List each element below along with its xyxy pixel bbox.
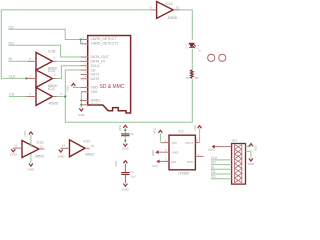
power VCC arrow left at JP1 (211, 145, 214, 149)
SD card socket U1 outline (88, 36, 131, 114)
node CD pins junction (80, 39, 82, 41)
pin stub IC1E input (13, 147, 22, 149)
pin stub GND (159, 151, 170, 153)
svg-text:11: 11 (14, 143, 17, 147)
wire DI net (9, 60, 28, 62)
pin stub VIN (161, 142, 169, 144)
wire JP1 to VCC right (246, 146, 251, 148)
wire JP1 CS (211, 173, 232, 175)
wire VCC to C2 (124, 164, 126, 173)
wire DO net (9, 45, 81, 57)
svg-text:C1: C1 (130, 132, 134, 136)
wire JP1 CD (211, 178, 232, 180)
connector JP1 box (232, 144, 246, 185)
pin stub CARD_DETECT1 (81, 43, 89, 45)
svg-text:CS: CS (9, 92, 15, 96)
capacitor C1 (121, 134, 129, 136)
wire IC1D output to LED chain (180, 10, 192, 40)
svg-text:CARD_DETECT: CARD_DETECT (91, 37, 118, 41)
wire C2 to GND (124, 175, 126, 184)
op-amp buffer IC1C (36, 87, 53, 105)
pin stub SCLK (81, 65, 89, 67)
wire IC1E to GND (30, 154, 32, 163)
svg-text:.1uF: .1uF (130, 174, 136, 178)
pin stub IC1C output (53, 96, 57, 98)
wire CD branch to pin 2 (80, 40, 82, 44)
wire JP1 CLK (211, 159, 232, 161)
pin stub IC1C input (27, 96, 37, 98)
pin stub IC1E output (39, 148, 45, 150)
pin stub VOUT (195, 142, 199, 144)
svg-text:CLK: CLK (211, 156, 218, 160)
svg-text:+3V3: +3V3 (23, 130, 27, 137)
wire CS net (9, 96, 27, 98)
svg-text:LP2985: LP2985 (178, 171, 189, 175)
svg-text:IC2: IC2 (179, 130, 184, 134)
svg-text:GND: GND (10, 153, 18, 157)
power +3V3 arrow above VOUT (198, 126, 202, 129)
svg-text:VCC: VCC (254, 145, 258, 151)
wire resistor down and bottom run (65, 79, 192, 122)
svg-text:GND: GND (172, 151, 180, 155)
ground symbol under card (79, 108, 83, 111)
op-amp buffer IC1A (36, 70, 53, 87)
svg-text:GND: GND (28, 167, 36, 171)
svg-text:12: 12 (40, 145, 44, 149)
pad hole H1 (208, 54, 215, 61)
ground arrow at IC2 GND (155, 150, 158, 154)
op-amp buffer IC1F (70, 140, 86, 157)
pad hole H2 (219, 54, 226, 61)
svg-text:GND: GND (91, 103, 99, 107)
pin stub IC1B input (28, 60, 37, 62)
svg-text:330: 330 (195, 77, 200, 80)
ground symbol below C1 (123, 144, 127, 147)
svg-text:IC1B: IC1B (48, 49, 56, 53)
svg-text:CARD_DETECT1: CARD_DETECT1 (91, 42, 119, 46)
wire JP1 DI (211, 168, 232, 170)
svg-text:+3V3: +3V3 (193, 125, 197, 132)
svg-text:SD & MMC: SD & MMC (100, 84, 125, 90)
pin stub CARD_DETECT (81, 39, 89, 41)
op-amp buffer IC1E (22, 141, 39, 158)
capacitor C2 (121, 173, 129, 175)
svg-text:C2: C2 (130, 170, 134, 174)
wire VCC to JP1 pin1 (214, 146, 231, 148)
wire VSS to GND (81, 92, 83, 108)
svg-text:4050D: 4050D (35, 155, 45, 159)
svg-text:CD: CD (211, 175, 216, 179)
node GND2 junction (80, 104, 82, 106)
wire JP1 to GND right (246, 151, 251, 158)
svg-text:14: 14 (62, 144, 66, 148)
LED LED1 (189, 43, 196, 48)
wire CD net (9, 29, 81, 39)
wire VCC to C1 (124, 128, 126, 133)
svg-text:DI: DI (211, 165, 214, 169)
wire IC1B output to DATA_IN (57, 60, 81, 62)
pin stub VDD (81, 86, 89, 88)
wire VCC to IC1E (30, 135, 32, 147)
wire IC1A output to SCLK (57, 66, 81, 79)
wire VIN to VCC (159, 133, 161, 142)
svg-text:VCC: VCC (114, 161, 118, 167)
ground symbol at IC1F input (59, 150, 63, 153)
pin stub IC1A output (53, 78, 57, 80)
svg-text:GND: GND (78, 113, 84, 117)
svg-text:GND: GND (122, 146, 130, 150)
pin stub IC1D output (174, 9, 180, 11)
svg-text:GND: GND (122, 187, 130, 191)
power VCC arrow at EN (156, 160, 159, 164)
svg-text:IC1F: IC1F (84, 140, 91, 144)
pin stub IC1F output (85, 147, 90, 149)
power VCC arrow above IC1E (29, 132, 33, 135)
pin stub DAT2 (81, 78, 89, 80)
ground symbol right of JP1 (249, 158, 253, 161)
svg-text:DI: DI (9, 57, 13, 61)
svg-text:GND: GND (248, 162, 254, 166)
pin stub EN (159, 160, 169, 162)
svg-text:VCC: VCC (152, 164, 158, 168)
pin stub DATA_OUT (81, 56, 89, 58)
power VCC arrow at VDD (71, 83, 75, 86)
pin stub IC1B output (53, 60, 57, 62)
pin stub IC1F input (61, 147, 70, 149)
wire LED to resistor (191, 49, 193, 70)
svg-text:IC1C: IC1C (48, 87, 56, 91)
svg-text:VIN: VIN (172, 141, 177, 145)
pin stub DATA_IN (81, 60, 89, 62)
wire CLK net (1, 77, 26, 79)
node GND1 junction (80, 100, 82, 102)
svg-text:IC1D: IC1D (166, 2, 174, 6)
wire VDD supply (73, 86, 80, 87)
power VCC arrow above C2 (123, 161, 127, 164)
node IC1C output junction (64, 95, 66, 97)
wire CLK left rail (0, 10, 2, 79)
wire VOUT to +3V3 (199, 129, 201, 143)
svg-text:VCC: VCC (208, 148, 215, 152)
svg-text:4050D: 4050D (85, 152, 95, 156)
pin stub DAT1 (81, 73, 89, 75)
wire top net to IC1D input (1, 9, 150, 11)
connector JP1 pads (235, 144, 242, 182)
svg-text:CS: CS (211, 170, 215, 174)
svg-text:DO: DO (9, 41, 15, 45)
svg-text:JP1: JP1 (232, 138, 238, 142)
wire JP1 DO (211, 164, 232, 166)
wire IC1C output to CS pin (57, 70, 81, 96)
power VCC arrow above VIN (158, 130, 162, 133)
svg-text:CD: CD (9, 25, 15, 29)
node CLK junction (25, 77, 27, 79)
svg-text:VCC: VCC (118, 125, 122, 131)
wire C1 to GND (124, 136, 126, 143)
svg-text:4050D: 4050D (168, 16, 178, 20)
svg-text:+3V3: +3V3 (66, 85, 70, 92)
svg-text:VSS: VSS (91, 90, 99, 94)
svg-text:GND: GND (151, 150, 155, 156)
svg-text:EN: EN (172, 160, 176, 164)
svg-text:DAT2: DAT2 (91, 77, 100, 81)
node C1 top junction (124, 129, 126, 131)
ground symbol below C2 (123, 184, 127, 187)
power VCC arrow right of JP1 (249, 144, 253, 147)
pin stub VSS (81, 91, 88, 93)
node C1 bottom junction (124, 140, 126, 142)
svg-text:BYP: BYP (187, 160, 193, 164)
wire IC1F input to GND (60, 147, 62, 150)
op-amp buffer IC1B (36, 52, 53, 70)
svg-text:15: 15 (91, 144, 95, 148)
svg-text:VCC: VCC (152, 128, 156, 134)
ground symbol below IC1E (29, 164, 33, 167)
svg-text:10: 10 (176, 6, 180, 10)
svg-text:VOUT: VOUT (185, 141, 194, 145)
wire IC1E input to GND (12, 147, 14, 150)
svg-text:4050D: 4050D (49, 101, 59, 105)
pin stub CS (81, 69, 89, 71)
pin stub IC1A input (27, 77, 37, 79)
pin stub BYP (195, 155, 203, 157)
power VCC arrow above C1 (123, 125, 127, 128)
svg-text:CLK: CLK (9, 74, 17, 78)
svg-text:DO: DO (211, 161, 216, 165)
pin stub GND2 (81, 104, 88, 106)
pin stub GND1 (81, 100, 88, 102)
resistor R1 (190, 70, 193, 79)
voltage regulator IC2 box (169, 135, 195, 170)
op-amp buffer IC1D (157, 2, 174, 19)
svg-text:GND: GND (58, 155, 66, 159)
pin stub IC1D input (150, 9, 156, 11)
ground symbol at IC1E input (11, 149, 15, 152)
